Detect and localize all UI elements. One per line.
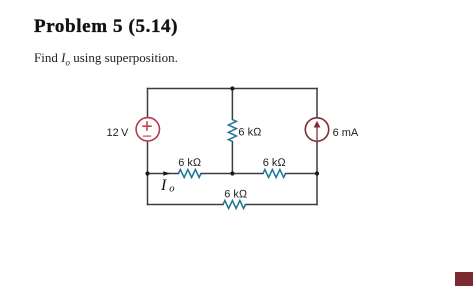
svg-text:6 mA: 6 mA: [333, 127, 359, 139]
svg-text:o: o: [169, 183, 174, 194]
svg-text:6 kΩ: 6 kΩ: [238, 127, 262, 139]
svg-text:6 kΩ: 6 kΩ: [224, 189, 248, 201]
svg-text:I: I: [160, 177, 167, 194]
svg-text:6 kΩ: 6 kΩ: [178, 157, 202, 169]
svg-text:12 V: 12 V: [107, 127, 129, 139]
svg-text:6 kΩ: 6 kΩ: [263, 157, 287, 169]
